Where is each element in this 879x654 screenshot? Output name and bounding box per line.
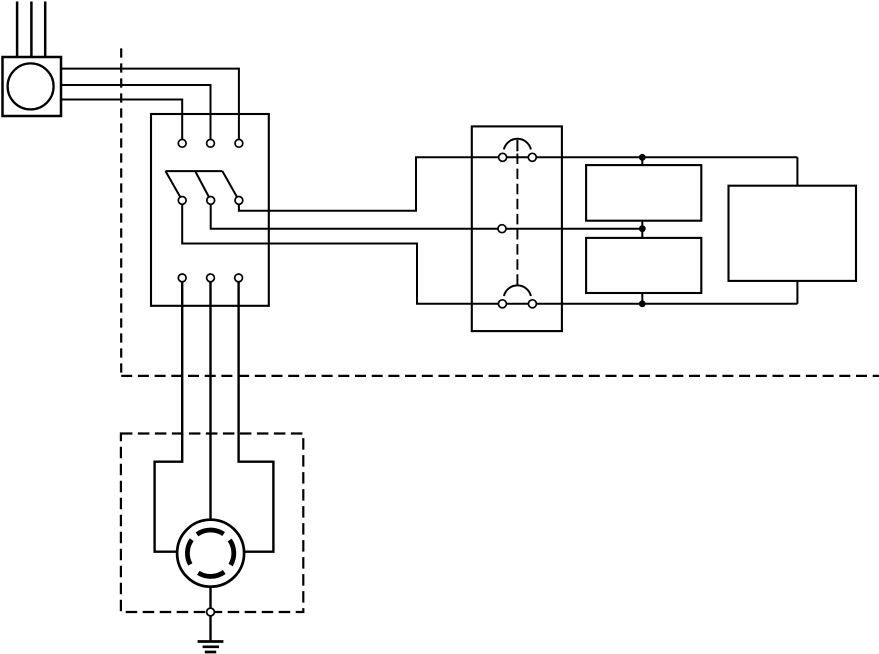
- wire CB1 pole 2 to contactor middle terminal and junction: [211, 200, 643, 228]
- right riser wire upper: [796, 157, 798, 185]
- K1 bottom bridging contact terminal left: [498, 300, 506, 308]
- CB1 moving contact 3: [235, 197, 243, 205]
- CB1 blade pole 2: [195, 171, 211, 200]
- wire CB1 pole 1 to contactor bottom contact and right bus: [182, 200, 797, 303]
- ground wire from receptacle: [209, 587, 211, 609]
- stub wire OL1 to OL2: [641, 221, 643, 238]
- K1 middle terminal: [498, 225, 506, 233]
- CB1 top fixed contact 3: [235, 139, 243, 147]
- K1 top contact actuator tick: [516, 140, 518, 151]
- K1 top bridging contact arc: [504, 139, 531, 150]
- utility meter M dial: [8, 63, 54, 109]
- wire meter phase A to breaker top terminal 3: [61, 69, 239, 144]
- CB1 blade pole 1: [166, 171, 183, 200]
- junction dot middle: [639, 225, 646, 232]
- receptacle slot arc left: [187, 540, 191, 565]
- wire meter phase C to breaker top terminal 1: [61, 100, 182, 144]
- wire meter phase B to breaker top terminal 2: [61, 85, 211, 143]
- stub wire top bus to OL1: [641, 157, 643, 165]
- receptacle slot arc top: [197, 530, 224, 534]
- junction dot top bus: [639, 154, 646, 161]
- stub wire OL2 to bottom bus: [641, 293, 643, 304]
- K1 bottom bridging contact terminal right: [528, 300, 536, 308]
- circuit breaker CB1 enclosure: [151, 114, 269, 306]
- junction dot bottom bus: [639, 300, 646, 307]
- incoming supply line L1: [16, 2, 19, 58]
- utility meter M enclosure: [3, 57, 62, 116]
- K1 mechanical linkage dashed: [516, 154, 518, 287]
- receptacle slot arc right: [230, 540, 234, 565]
- CB1 moving contact 1: [178, 197, 186, 205]
- wire CB1 bottom terminal 3 to receptacle right: [239, 278, 274, 552]
- CB1 bottom terminal 2: [207, 274, 215, 282]
- wire CB1 bottom terminal 1 to receptacle left: [155, 278, 183, 552]
- CB1 bottom terminal 1: [178, 274, 186, 282]
- ground wire to earth: [209, 616, 211, 642]
- overload heater OL1: [586, 165, 701, 221]
- K1 top bridging contact terminal left: [499, 153, 507, 161]
- load equipment box: [729, 186, 857, 281]
- CB1 operating bar: [166, 170, 223, 172]
- CB1 top fixed contact 2: [207, 139, 215, 147]
- CB1 moving contact 2: [207, 197, 215, 205]
- K1 top bridging contact terminal right: [528, 153, 536, 161]
- service boundary dashed line vertical: [120, 48, 122, 376]
- CB1 top fixed contact 1: [178, 139, 186, 147]
- CB1 bottom terminal 3: [235, 274, 243, 282]
- overload heater OL2: [586, 238, 701, 293]
- twist-lock receptacle outline: [177, 520, 244, 587]
- CB1 blade pole 3: [222, 171, 239, 200]
- receptacle ground terminal: [207, 608, 215, 616]
- incoming supply line L3: [44, 2, 47, 58]
- service boundary dashed line horizontal: [121, 375, 879, 377]
- K1 bottom bridging contact arc: [504, 285, 531, 296]
- equipment dashed enclosure: [121, 434, 303, 613]
- incoming supply line L2: [30, 2, 33, 58]
- wire CB1 bottom terminal 2 to receptacle top: [209, 278, 211, 521]
- earth ground symbol: [198, 642, 224, 653]
- receptacle slot arc bottom: [198, 572, 224, 576]
- contactor K1 enclosure: [472, 126, 562, 331]
- right riser wire lower: [796, 281, 798, 304]
- wire CB1 pole 3 to contactor top contact and right bus: [239, 157, 798, 211]
